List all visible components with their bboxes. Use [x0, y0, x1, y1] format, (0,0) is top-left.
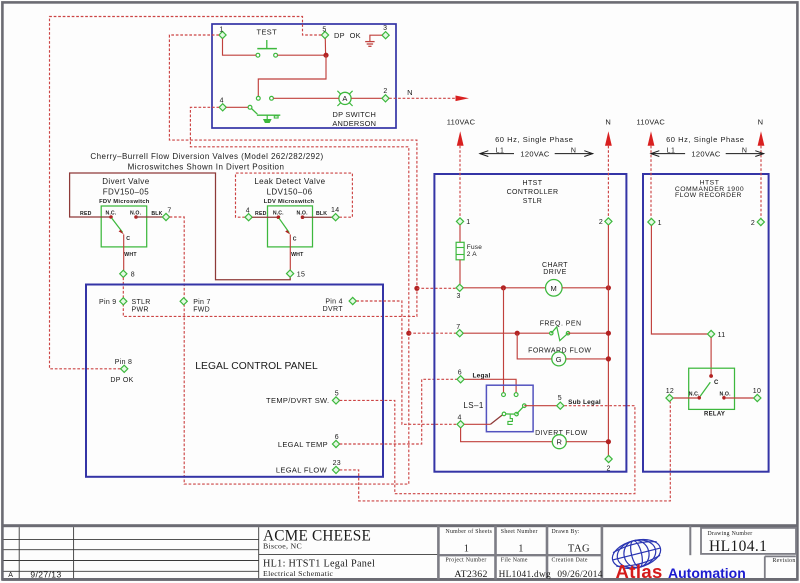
svg-text:DP OK: DP OK [334, 31, 361, 40]
LDV N.C. contact [277, 215, 281, 219]
wire node7 to Pin7 vertical (dashed) [170, 217, 185, 298]
svg-text:A: A [8, 572, 13, 579]
svg-text:1: 1 [464, 544, 469, 555]
wire FDV RED lead loop to node 15 (maroon) [70, 173, 291, 280]
svg-text:Sheet Number: Sheet Number [501, 529, 538, 535]
wire net: DP node5 DP OK to Pin 8 (dashed, outer loop) [50, 17, 322, 369]
svg-text:C: C [126, 236, 130, 242]
svg-text:Leak Detect Valve: Leak Detect Valve [254, 177, 325, 186]
svg-text:N: N [407, 88, 413, 97]
node 5 TEMP/DVRT SW. [266, 391, 340, 406]
wire forward flow to N rail [566, 358, 606, 360]
wire LS-1 left terminal feed from chart rail [503, 288, 505, 393]
node 1 (Commander) [648, 218, 662, 226]
svg-text:Automation: Automation [668, 565, 746, 581]
power feed 110VAC (HTST) [447, 118, 476, 218]
wire fuse to node 3 [459, 260, 461, 284]
LDV N.O. contact [301, 215, 305, 219]
wire net: DP node1 to Pin 9 STLR PWR (dashed) [123, 35, 417, 316]
svg-text:STLR: STLR [132, 299, 151, 306]
node 5 DP OK [321, 27, 360, 41]
svg-text:WHT: WHT [124, 252, 137, 258]
svg-text:14: 14 [331, 207, 339, 214]
phase annotation (Commander) [651, 135, 764, 159]
svg-text:110VAC: 110VAC [447, 118, 476, 127]
svg-text:HL1: HTST1 Legal Panel: HL1: HTST1 Legal Panel [263, 558, 375, 569]
svg-text:23: 23 [333, 460, 341, 467]
svg-text:2: 2 [383, 88, 387, 95]
wire node4 to DP switch blade [226, 106, 248, 108]
svg-text:Pin 8: Pin 8 [115, 359, 132, 366]
DP switch contacts and blade [248, 96, 280, 122]
wire DP switch to ammeter to node 2 [273, 97, 339, 99]
node 1 (HTST) [456, 218, 470, 226]
node 2 top (HTST) [599, 218, 612, 226]
svg-text:WHT: WHT [291, 252, 304, 258]
svg-text:4: 4 [457, 415, 461, 422]
wire LDV BLK to node 14 [303, 216, 333, 218]
svg-text:FORWARD FLOW: FORWARD FLOW [528, 347, 591, 354]
wire branch to HTST node 7 (dashed) [409, 332, 456, 334]
svg-text:LEGAL FLOW: LEGAL FLOW [276, 466, 328, 475]
svg-text:1: 1 [466, 219, 470, 226]
svg-text:8: 8 [131, 272, 135, 279]
enclosure box: HTST COMMANDER 1900 FLOW RECORDER [643, 174, 769, 472]
junction N rail at chart drive [606, 285, 611, 290]
svg-text:G: G [556, 355, 562, 364]
node 7 (FDV) [162, 207, 171, 220]
svg-text:60 Hz, Single Phase: 60 Hz, Single Phase [666, 135, 744, 144]
svg-text:HL104.1: HL104.1 [709, 538, 767, 555]
svg-text:Pin 9: Pin 9 [99, 299, 116, 306]
power feed N (Commander) [758, 118, 765, 219]
enclosure box: HTST CONTROLLER STLR [434, 174, 626, 472]
svg-text:5: 5 [335, 391, 339, 398]
wire branch to HTST node 3 (dashed) [417, 287, 456, 289]
svg-text:N: N [605, 118, 611, 127]
svg-text:2: 2 [751, 220, 755, 227]
svg-text:5: 5 [558, 395, 562, 402]
svg-text:Drawing Number: Drawing Number [708, 531, 753, 537]
node 15 [287, 270, 306, 279]
FDV switch blade to C [112, 218, 131, 242]
svg-text:2: 2 [606, 466, 610, 473]
svg-text:BLK: BLK [316, 211, 327, 217]
leak detect valve LDV150-06 labels [254, 177, 325, 205]
svg-text:FDV Microswitch: FDV Microswitch [99, 199, 150, 205]
svg-text:DIVERT FLOW: DIVERT FLOW [535, 430, 588, 437]
svg-text:Number of Sheets: Number of Sheets [446, 528, 493, 535]
svg-text:Divert Valve: Divert Valve [102, 177, 149, 186]
node 3 (DP box) with ground [382, 25, 389, 39]
wire LS-1 out to node 5 Sub Legal [524, 405, 556, 407]
wire LDV RED [252, 216, 278, 218]
svg-text:5: 5 [322, 27, 326, 34]
svg-text:CONTROLLER: CONTROLLER [507, 189, 559, 196]
FDV N.C. contact [109, 215, 113, 219]
FDV N.O. contact [134, 215, 138, 219]
wire node3 to chart drive rail [463, 287, 545, 289]
svg-text:STLR: STLR [523, 198, 543, 205]
wire branch to forward flow lamp [517, 333, 552, 359]
svg-text:C: C [293, 236, 297, 242]
svg-text:Sub Legal: Sub Legal [568, 399, 601, 406]
relay RELAY [689, 368, 735, 417]
wire FDV C WHT to node 8 [124, 234, 138, 270]
svg-text:RED: RED [255, 211, 267, 217]
svg-text:N: N [571, 148, 576, 155]
svg-text:Revision: Revision [773, 558, 796, 564]
svg-text:Cherry–Burrell Flow Diversion: Cherry–Burrell Flow Diversion Valves (Mo… [90, 152, 323, 161]
svg-text:TAG: TAG [568, 544, 590, 555]
svg-text:DRIVE: DRIVE [543, 269, 566, 276]
wire node11 to relay C [710, 338, 712, 375]
svg-text:1: 1 [518, 544, 523, 555]
junction on net at HTST node3 branch [414, 286, 419, 291]
node 2 (DP box) [382, 88, 389, 102]
wire divert flow to N rail [566, 441, 606, 443]
svg-text:Atlas: Atlas [616, 561, 663, 582]
svg-text:15: 15 [297, 272, 305, 279]
node 4 (DP box) [219, 98, 226, 111]
svg-text:60 Hz, Single Phase: 60 Hz, Single Phase [495, 135, 573, 144]
LDV terminal labels [255, 210, 327, 216]
wire node1 to fuse [459, 225, 461, 242]
enclosure box: LEGAL CONTROL PANEL [86, 285, 383, 477]
node 4 (LDV) [245, 207, 252, 220]
Pin 8 DP OK [110, 359, 133, 384]
phase annotation (HTST) [480, 135, 593, 159]
svg-text:1: 1 [219, 27, 223, 34]
svg-text:10: 10 [753, 388, 761, 395]
svg-text:Electrical Schematic: Electrical Schematic [263, 569, 334, 578]
svg-text:DVRT: DVRT [323, 306, 344, 313]
svg-text:3: 3 [383, 25, 387, 32]
LDV switch blade to C [279, 218, 297, 242]
wire node6 to LS-1 right terminal [464, 379, 516, 392]
svg-text:TEMP/DVRT SW.: TEMP/DVRT SW. [266, 396, 329, 405]
wire legal node23 to Commander node 12 (dashed) [340, 402, 671, 501]
svg-text:FREQ. PEN: FREQ. PEN [540, 321, 582, 328]
svg-text:ANDERSON: ANDERSON [332, 119, 376, 128]
wire node2 to N arrow [389, 88, 469, 101]
junction chart-drive / LS-1 feed [501, 285, 506, 290]
Pin 7 FWD [180, 298, 211, 314]
wire node1 to node 11 [651, 226, 707, 334]
svg-text:Project Number: Project Number [446, 557, 487, 563]
svg-text:6: 6 [458, 370, 462, 377]
svg-text:Creation Date: Creation Date [552, 557, 588, 563]
node 6 LEGAL TEMP [278, 434, 340, 449]
svg-text:A: A [342, 94, 347, 103]
node 1 (DP box) [219, 27, 226, 39]
svg-text:LS–1: LS–1 [463, 401, 483, 410]
power feed N (HTST) [605, 118, 612, 218]
svg-text:LEGAL TEMP: LEGAL TEMP [278, 440, 328, 449]
svg-text:L1: L1 [667, 148, 675, 155]
wire LDV C WHT to node 15 [290, 235, 304, 270]
svg-text:N.C.: N.C. [689, 391, 700, 397]
limit switch LS-1 [463, 385, 533, 432]
svg-text:C: C [714, 380, 719, 386]
svg-text:09/26/2014: 09/26/2014 [557, 570, 602, 580]
logo Atlas Automation [609, 535, 745, 582]
svg-text:BLK: BLK [151, 211, 162, 217]
svg-text:Drawn By:: Drawn By: [552, 529, 580, 535]
junction freq-pen / forward-flow branch [515, 331, 520, 336]
commander title [675, 180, 744, 200]
wire node4 down to divert flow lamp [461, 428, 553, 442]
svg-text:HTST: HTST [523, 180, 543, 187]
wire node4 to LS-1 blade [464, 423, 490, 425]
svg-text:LDV150–06: LDV150–06 [267, 187, 313, 196]
chart drive motor M [542, 262, 568, 296]
svg-text:L1: L1 [496, 148, 504, 155]
enclosure box: DP switch test panel [212, 24, 396, 128]
svg-text:RELAY: RELAY [704, 411, 725, 417]
node 10 [753, 388, 761, 402]
FDV terminal labels [80, 210, 163, 216]
node 5 Sub Legal [557, 395, 601, 409]
svg-text:1: 1 [658, 220, 662, 227]
node 8 [120, 270, 135, 278]
svg-text:FLOW RECORDER: FLOW RECORDER [675, 192, 742, 199]
wire node7 to freq pen [463, 332, 549, 334]
svg-text:N: N [758, 118, 764, 127]
svg-text:9/27/13: 9/27/13 [30, 569, 61, 579]
svg-text:R: R [556, 438, 562, 447]
wire TEST button to junction [278, 54, 326, 56]
svg-text:File Name: File Name [501, 557, 528, 563]
svg-text:Microswitches Shown In Divert: Microswitches Shown In Divert Position [128, 163, 285, 172]
node 2 bottom (HTST) [605, 455, 612, 472]
junction N rail at divert flow [606, 439, 611, 444]
wire FDV BLK to node 7 [136, 216, 162, 218]
svg-text:7: 7 [167, 207, 171, 214]
divert flow indicator R [535, 430, 588, 449]
ground symbol [365, 35, 382, 46]
wire freq pen to N rail [568, 332, 606, 334]
junction (test/dpok) [323, 53, 328, 58]
svg-text:6: 6 [335, 434, 339, 441]
svg-text:DP SWITCH: DP SWITCH [333, 110, 377, 119]
Pin 9 STLR PWR [99, 298, 151, 314]
wire node 8 to Pin 9 (dashed) [122, 277, 124, 297]
svg-text:M: M [551, 284, 558, 293]
svg-text:PWR: PWR [132, 307, 149, 314]
wire node5 down to junction [324, 39, 326, 56]
junction N rail at freq pen [606, 331, 611, 336]
svg-text:HL1041.dwg: HL1041.dwg [499, 570, 551, 580]
svg-text:LDV Microswitch: LDV Microswitch [264, 199, 315, 205]
svg-text:TEST: TEST [257, 27, 278, 36]
svg-text:Pin 4: Pin 4 [325, 299, 342, 306]
svg-text:AT2362: AT2362 [454, 569, 487, 580]
FDV microswitch box [101, 206, 147, 247]
wire node12 to relay NC [673, 397, 697, 399]
wire junction to DP switch upper contact [258, 55, 326, 96]
node 14 [331, 207, 339, 221]
node 12 [666, 388, 674, 401]
node 7 (HTST) [456, 324, 463, 337]
svg-text:4: 4 [220, 98, 224, 105]
N rail (HTST right side) [607, 225, 609, 455]
svg-text:Legal: Legal [473, 372, 491, 379]
svg-text:RED: RED [80, 211, 92, 217]
wire chart drive to N rail [562, 287, 606, 289]
svg-text:11: 11 [718, 332, 726, 339]
node 11 [708, 330, 726, 338]
power feed 110VAC (Commander) [636, 118, 665, 219]
svg-text:LEGAL CONTROL PANEL: LEGAL CONTROL PANEL [195, 361, 318, 372]
svg-text:120VAC: 120VAC [520, 150, 549, 159]
svg-text:4: 4 [246, 207, 250, 214]
svg-text:12: 12 [666, 388, 674, 395]
node 23 LEGAL FLOW [276, 460, 341, 475]
node 4 (HTST) [457, 415, 464, 428]
svg-text:CHART: CHART [542, 262, 568, 269]
svg-text:120VAC: 120VAC [691, 150, 720, 159]
svg-text:Biscoe, NC: Biscoe, NC [263, 541, 302, 550]
wire legal node6 to HTST node 6 Legal (dashed) [340, 379, 457, 444]
svg-text:FWD: FWD [193, 307, 210, 314]
svg-text:110VAC: 110VAC [636, 118, 665, 127]
freq pen recorder element [540, 321, 582, 341]
ammeter A (DP SWITCH ANDERSON) [332, 91, 376, 128]
node 3 (HTST) [456, 284, 463, 300]
title block [2, 524, 797, 581]
HTST controller title [507, 180, 559, 205]
junction on net at HTST node7 branch [406, 331, 411, 336]
wire legal node5 to HTST Sub Legal node 5 (dashed) [340, 400, 635, 493]
fuse F1 2A [456, 242, 482, 259]
node 6 Legal (HTST) [457, 370, 490, 383]
svg-text:3: 3 [456, 293, 460, 300]
heading text [90, 152, 323, 172]
forward flow indicator G [528, 347, 591, 366]
svg-text:2 A: 2 A [467, 251, 477, 258]
svg-text:N.O.: N.O. [720, 391, 732, 397]
wire relay NO to node10 [726, 397, 754, 399]
wire node 4 to node 14 loop (dashed) [236, 173, 353, 217]
divert valve FDV150-05 labels [99, 177, 150, 205]
svg-text:DP OK: DP OK [110, 377, 133, 384]
svg-text:Pin 7: Pin 7 [193, 299, 210, 306]
svg-text:FDV150–05: FDV150–05 [103, 187, 149, 196]
Pin 4 DVRT [323, 297, 357, 313]
svg-text:Fuse: Fuse [467, 244, 482, 251]
wire node1 to TEST button [223, 39, 256, 56]
svg-text:2: 2 [599, 219, 603, 226]
junction N rail at forward flow [606, 356, 611, 361]
svg-text:N: N [742, 148, 747, 155]
pushbutton TEST [256, 27, 278, 57]
wire net: DP node4 to Pin 7 FWD (dashed) [184, 107, 409, 484]
LDV microswitch box [268, 206, 313, 247]
svg-text:7: 7 [456, 324, 460, 331]
node 2 (Commander) [751, 218, 765, 226]
wire Pin 4 to HTST node 4 (dashed) [356, 301, 456, 424]
